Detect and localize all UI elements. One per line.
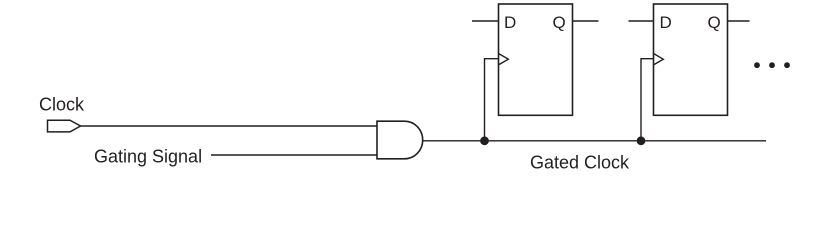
wire FF2 D input	[629, 20, 654, 22]
svg-text:Q: Q	[553, 13, 566, 32]
flip-flop FF2 body	[654, 4, 728, 115]
node junction 2	[637, 136, 646, 145]
ellipsis: more flip-flop stages	[754, 62, 790, 68]
AND gate	[377, 121, 423, 159]
wire gated clock net	[423, 140, 766, 142]
svg-text:Gating Signal: Gating Signal	[94, 146, 202, 166]
wire junction 2 to FF2 clock pin	[641, 59, 654, 141]
node junction 1	[480, 136, 489, 145]
wire FF1 Q output	[573, 20, 599, 22]
wire FF1 D input	[472, 20, 499, 22]
svg-text:D: D	[504, 13, 516, 32]
FF1 clock edge triangle	[499, 54, 509, 65]
wire junction 1 to FF1 clock pin	[485, 59, 499, 141]
svg-text:D: D	[660, 13, 672, 32]
svg-text:Q: Q	[708, 13, 721, 32]
flip-flop FF1 body	[499, 4, 573, 115]
FF2 clock edge triangle	[654, 54, 664, 65]
wire FF2 Q output	[728, 20, 750, 22]
wire Clock to AND gate input	[81, 125, 378, 127]
wire Gating Signal to AND gate input	[211, 154, 377, 156]
clock source symbol	[48, 120, 81, 132]
svg-text:Gated Clock: Gated Clock	[530, 153, 630, 173]
svg-text:Clock: Clock	[39, 94, 85, 114]
